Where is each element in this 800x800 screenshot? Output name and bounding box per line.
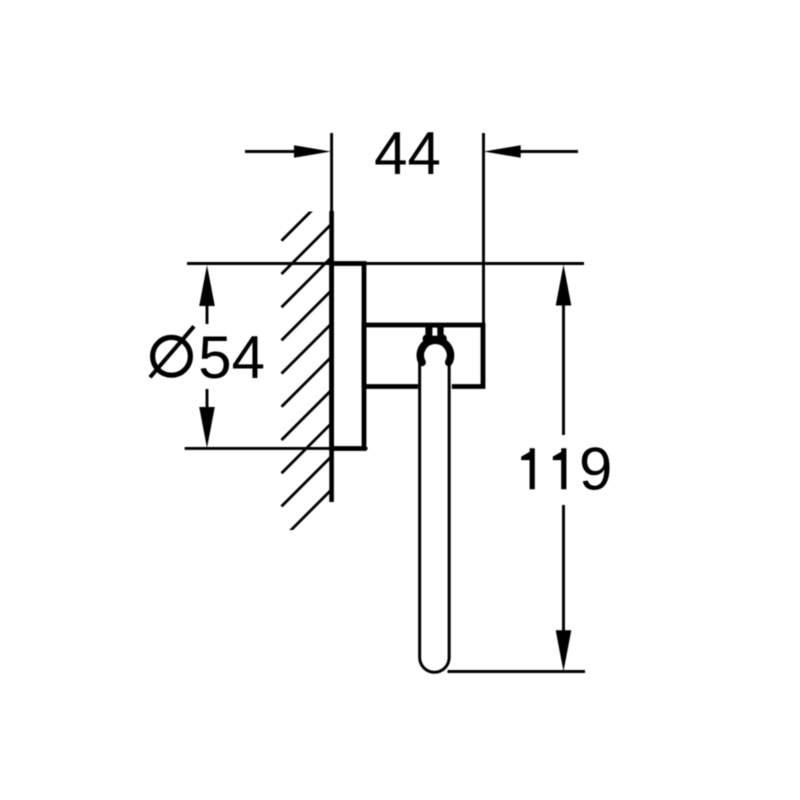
roll holder rod (U shape) xyxy=(420,360,450,672)
svg-text:9: 9 xyxy=(579,436,612,503)
dim 44: left arrowhead xyxy=(294,145,331,158)
dim 44: right arrowhead xyxy=(484,145,521,158)
wall face line xyxy=(329,211,334,502)
dim 119: upper line + up arrowhead xyxy=(562,300,565,435)
extension line above wall (44 left) xyxy=(330,133,333,211)
dim Ø54: label xyxy=(150,326,194,377)
pivot neck (solid with slot) xyxy=(425,326,443,344)
dim 119: lower line + down arrowhead xyxy=(562,505,565,635)
dim 44: left arrow line xyxy=(245,150,296,153)
svg-text:44: 44 xyxy=(374,120,441,187)
pivot cap (thick arc) xyxy=(420,340,450,362)
dim 119: label xyxy=(521,448,535,489)
dim 44: right arrow line xyxy=(519,150,578,153)
dim Ø54: upper line + up arrowhead xyxy=(206,302,209,324)
bottom-right extension line xyxy=(448,670,586,673)
svg-text:54: 54 xyxy=(198,324,265,391)
extension line right (44 right) xyxy=(482,133,485,325)
bracket arm xyxy=(364,325,483,387)
top extension line xyxy=(187,262,584,265)
bottom-left extension line xyxy=(185,447,368,450)
wall hatching xyxy=(282,191,332,540)
dim Ø54: lower line + down arrowhead xyxy=(206,389,209,412)
wall plate (escutcheon) xyxy=(332,264,364,449)
